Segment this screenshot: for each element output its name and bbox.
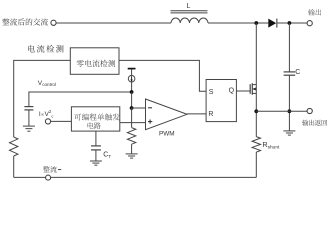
wire: Vcontrol line bbox=[29, 92, 132, 107]
wire: CT lower lead bbox=[95, 150, 97, 161]
transistor: MOSFET switch bbox=[250, 83, 256, 95]
op-amp: PWM comparator bbox=[146, 99, 188, 130]
wire: zero current detect to S input bbox=[119, 60, 206, 91]
wire: ramp resistor to ground bbox=[131, 144, 133, 154]
node: Vcontrol junction bbox=[130, 90, 134, 94]
capacitor: Vcontrol filter cap bbox=[24, 107, 33, 110]
ground: Vcontrol cap bbox=[23, 126, 35, 131]
node: source sense junction bbox=[254, 109, 258, 113]
wire: cap to ground lead bbox=[28, 110, 30, 126]
wire: CT upper lead bbox=[95, 131, 97, 146]
capacitor C bbox=[284, 72, 296, 75]
wire: minus input bbox=[132, 107, 146, 109]
diode D bbox=[268, 19, 277, 28]
svg-text:I∝V2c: I∝V2c bbox=[39, 109, 53, 118]
label: output return bbox=[302, 120, 327, 126]
resistor R_shunt bbox=[252, 137, 260, 153]
svg-text:Q: Q bbox=[229, 87, 235, 94]
block: programmable one-shot box bbox=[71, 107, 119, 131]
terminal: output bbox=[307, 21, 312, 26]
wire: output return bbox=[256, 110, 307, 112]
wire: top rail right segment bbox=[278, 22, 308, 24]
terminal: AC input bbox=[51, 20, 56, 25]
svg-text:Rshunt: Rshunt bbox=[262, 140, 280, 151]
terminal: one-shot program input bbox=[45, 119, 50, 124]
wire: Q output to gate bbox=[236, 90, 250, 92]
svg-text:PWM: PWM bbox=[159, 131, 175, 138]
resistor: left sense resistor bbox=[10, 137, 18, 156]
svg-text:R: R bbox=[208, 111, 213, 118]
wire: program input to one-shot box bbox=[51, 120, 72, 122]
label: programmable one-shot line2 bbox=[88, 122, 101, 129]
terminal: output return bbox=[307, 108, 312, 113]
svg-text:S: S bbox=[209, 89, 214, 96]
svg-text:CT: CT bbox=[103, 151, 111, 159]
node: output cap junction on top rail bbox=[288, 21, 292, 25]
wire: bottom rail bbox=[14, 176, 257, 178]
wire: output cap lower lead bbox=[288, 75, 290, 131]
label: output bbox=[308, 9, 321, 15]
wire: current sense L-branch bbox=[14, 60, 71, 137]
ground: ramp resistor bbox=[126, 154, 138, 158]
svg-text:Vcontrol: Vcontrol bbox=[38, 80, 56, 87]
wire: output cap upper lead bbox=[288, 23, 290, 72]
label: programmable one-shot line1 bbox=[74, 113, 119, 120]
block: zero current detection box bbox=[70, 48, 119, 75]
wire: node to minus node bbox=[131, 92, 133, 108]
wire: drain/source vertical branch bbox=[255, 23, 257, 137]
ground: output cap bbox=[283, 131, 295, 135]
label: zero current detection bbox=[77, 60, 116, 67]
svg-text:L: L bbox=[187, 3, 191, 10]
resistor: ramp resistor bbox=[127, 128, 135, 145]
label: current sense bbox=[28, 45, 64, 53]
node: PWM minus junction bbox=[130, 106, 134, 110]
block: SR latch U1 bbox=[206, 80, 236, 122]
svg-text:C: C bbox=[295, 69, 300, 76]
inductor L bbox=[171, 11, 209, 23]
label: rectified AC input bbox=[2, 18, 48, 25]
wire: left branch lower segment bbox=[13, 156, 15, 177]
node: drain junction on top rail bbox=[254, 21, 258, 25]
wire: node to ramp resistor bbox=[131, 108, 133, 128]
wire: top rail middle segment bbox=[208, 22, 268, 24]
ground: CT bbox=[90, 161, 102, 165]
capacitor C_T bbox=[91, 146, 101, 150]
terminal: rectified return bbox=[46, 175, 51, 180]
wire: current source to node bbox=[131, 82, 133, 92]
wire: one-shot to PWM plus bbox=[120, 122, 146, 124]
wire: top rail left segment bbox=[56, 22, 171, 24]
current source: I prop V^2 bbox=[128, 69, 136, 82]
label: rectified minus bbox=[43, 166, 57, 173]
label: minus dash bbox=[58, 169, 61, 171]
wire: PWM output to R input bbox=[187, 113, 206, 115]
node: output return junction bbox=[288, 109, 292, 113]
wire: shunt to bottom rail bbox=[255, 152, 257, 177]
